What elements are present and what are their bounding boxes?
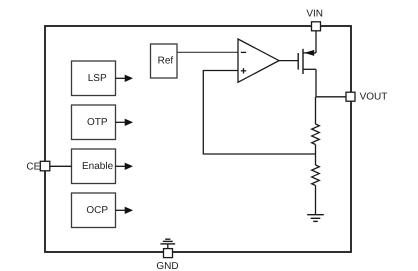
block LSP (72, 61, 116, 96)
svg-text:GND: GND (156, 261, 178, 271)
wire CE to Enable (50, 165, 72, 167)
wire R2 to ground (315, 186, 317, 215)
block OTP (72, 105, 116, 140)
resistor R1 (312, 124, 320, 144)
wire Ref to op-amp inverting input (177, 51, 238, 53)
svg-text:CE: CE (26, 162, 40, 173)
arrow from OCP (116, 207, 134, 214)
wire transistor source down to output node (315, 69, 317, 97)
svg-text:VIN: VIN (306, 9, 323, 20)
wire VIN to transistor drain (315, 31, 317, 53)
pin VOUT (346, 92, 387, 103)
pin CE (26, 161, 49, 172)
svg-text:OTP: OTP (87, 117, 108, 128)
svg-text:LSP: LSP (88, 73, 107, 84)
resistor R2 (312, 165, 320, 185)
svg-text:OCP: OCP (86, 205, 108, 216)
transistor Q1 (PMOS pass element) (298, 49, 316, 74)
svg-text:Ref: Ref (158, 56, 174, 67)
wire feedback: divider tap to op-amp non-inverting input (203, 71, 315, 155)
arrow from OTP (116, 119, 134, 126)
op-amp U1 (238, 39, 279, 82)
svg-text:VOUT: VOUT (360, 92, 388, 103)
wire op-amp output to gate (279, 60, 298, 62)
pin GND (156, 249, 178, 271)
ground (divider bottom) (307, 215, 324, 222)
svg-text:Enable: Enable (82, 161, 114, 172)
ground (internal, above GND pin) (160, 239, 175, 249)
wire output node down to resistor R1 (315, 97, 317, 124)
wire output node to VOUT pin (316, 96, 347, 98)
arrow from Enable (116, 163, 134, 170)
wire R1 to tap node (315, 145, 317, 166)
arrow from LSP (116, 75, 134, 82)
block Enable (72, 149, 116, 184)
block OCP (72, 193, 116, 228)
pin VIN (306, 9, 323, 31)
block Ref (151, 44, 178, 78)
IC boundary box (45, 26, 351, 252)
